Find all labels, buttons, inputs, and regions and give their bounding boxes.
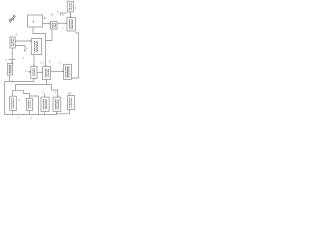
R1 vertical text 2 cols [66, 66, 69, 78]
box B1b [27, 99, 33, 111]
wire L1 right to box2 [15, 40, 31, 42]
svg-text:7: 7 [62, 27, 64, 31]
svg-text:9: 9 [70, 91, 72, 95]
arrowhead into L2 top [11, 62, 13, 64]
wire L1 bottom to L2 top [11, 48, 13, 64]
box B1 [10, 96, 17, 110]
box T2 [67, 18, 75, 31]
svg-text:2: 2 [25, 69, 27, 73]
B3 bottom drop [56, 112, 58, 115]
box 3 (top oscillator) [28, 15, 43, 27]
B1 bottom drop [11, 111, 13, 115]
B1b vertical text [29, 100, 31, 108]
svg-text:3: 3 [42, 90, 44, 94]
box L1 (left tall) [10, 37, 15, 48]
wire L1 right lower, down with arrow [15, 46, 25, 51]
svg-text:2: 2 [23, 56, 25, 60]
L2 bottom wire [9, 75, 11, 82]
wire box3 right to R1 left [51, 70, 64, 72]
wire box1 to S1 [43, 23, 51, 25]
crossing tick [9, 59, 16, 61]
svg-text:3: 3 [32, 20, 34, 24]
label lead 35 [60, 13, 66, 16]
box3 bottom drop to line B [46, 80, 48, 85]
feedback left drop [5, 82, 10, 115]
L1 vertical text [12, 39, 14, 47]
wire box1 bottom to box3 top [33, 27, 46, 66]
box T1 (tall top-right) [67, 1, 73, 12]
svg-text:Fig.6: Fig.6 [7, 13, 17, 23]
box3 vertical text [45, 69, 48, 78]
svg-text:3: 3 [55, 90, 57, 94]
B2 top tick [44, 94, 46, 97]
box R2 [68, 96, 75, 110]
B1b bottom drop [29, 111, 31, 115]
wire T1 to T2 [70, 12, 72, 18]
box B2 [41, 97, 49, 111]
box3 [43, 67, 51, 80]
M1 vertical text [33, 68, 35, 76]
figure label Fig.6 [7, 13, 17, 23]
svg-text:5: 5 [57, 10, 59, 14]
R2 top tick with label [68, 93, 70, 96]
arrowhead into box3 top [45, 65, 47, 67]
svg-text:5: 5 [44, 16, 46, 20]
M1 bottom drop [33, 79, 35, 82]
box L2 [8, 64, 13, 76]
box2 vertical text [35, 41, 38, 53]
svg-text:1: 1 [42, 61, 44, 65]
R2 bottom wire [57, 110, 70, 114]
B1 top wiring [12, 91, 29, 99]
arrowhead into box2 [30, 40, 32, 42]
box B3 [53, 97, 61, 111]
svg-text:1: 1 [75, 6, 77, 10]
B2 vertical text [44, 99, 47, 109]
S1 vertical text [52, 23, 55, 28]
svg-text:6: 6 [62, 13, 64, 17]
svg-text:2: 2 [59, 61, 61, 65]
svg-text:50: 50 [51, 13, 54, 17]
arrowhead into T2 [66, 22, 68, 24]
box2 (center tall) [31, 39, 41, 55]
T2 vertical text 2 cols [70, 19, 73, 29]
box S1 (small hatched) [51, 22, 58, 30]
bottom bus [5, 114, 57, 116]
svg-text:3: 3 [18, 98, 20, 102]
R2 vertical text [70, 98, 72, 108]
drop to B1 top [15, 85, 17, 91]
svg-text:4: 4 [26, 46, 28, 50]
M1 left stub arrow [28, 71, 31, 73]
svg-text:1: 1 [30, 115, 32, 119]
wire S1 to T2 [57, 22, 67, 24]
B2 bottom drop [44, 112, 46, 115]
svg-text:3: 3 [18, 115, 20, 119]
wire S1 bottom join [46, 29, 53, 41]
arrowhead into M1 [33, 65, 35, 67]
svg-text:2: 2 [6, 58, 8, 62]
bypass wire between B1b and B2 [30, 96, 39, 115]
svg-text:6: 6 [16, 32, 18, 36]
line A to M1 bottom [10, 81, 34, 83]
box R1 [64, 64, 72, 79]
arrowhead into S1 [49, 23, 51, 25]
wire T2 right down to R1 right [72, 33, 79, 78]
tick above box3 right [49, 61, 51, 63]
line B [15, 84, 52, 86]
B3 vertical text [55, 99, 58, 109]
L2 vertical text [9, 65, 11, 74]
arrowhead into T2 top [70, 16, 72, 18]
wire box2 bottom to M1 top [33, 55, 35, 67]
line B right drop to B3 [52, 85, 58, 98]
box M1 [31, 66, 37, 78]
wire M1 right to box3 [37, 71, 43, 73]
T1 vertical text [70, 3, 72, 11]
B1 vertical text [12, 98, 14, 108]
